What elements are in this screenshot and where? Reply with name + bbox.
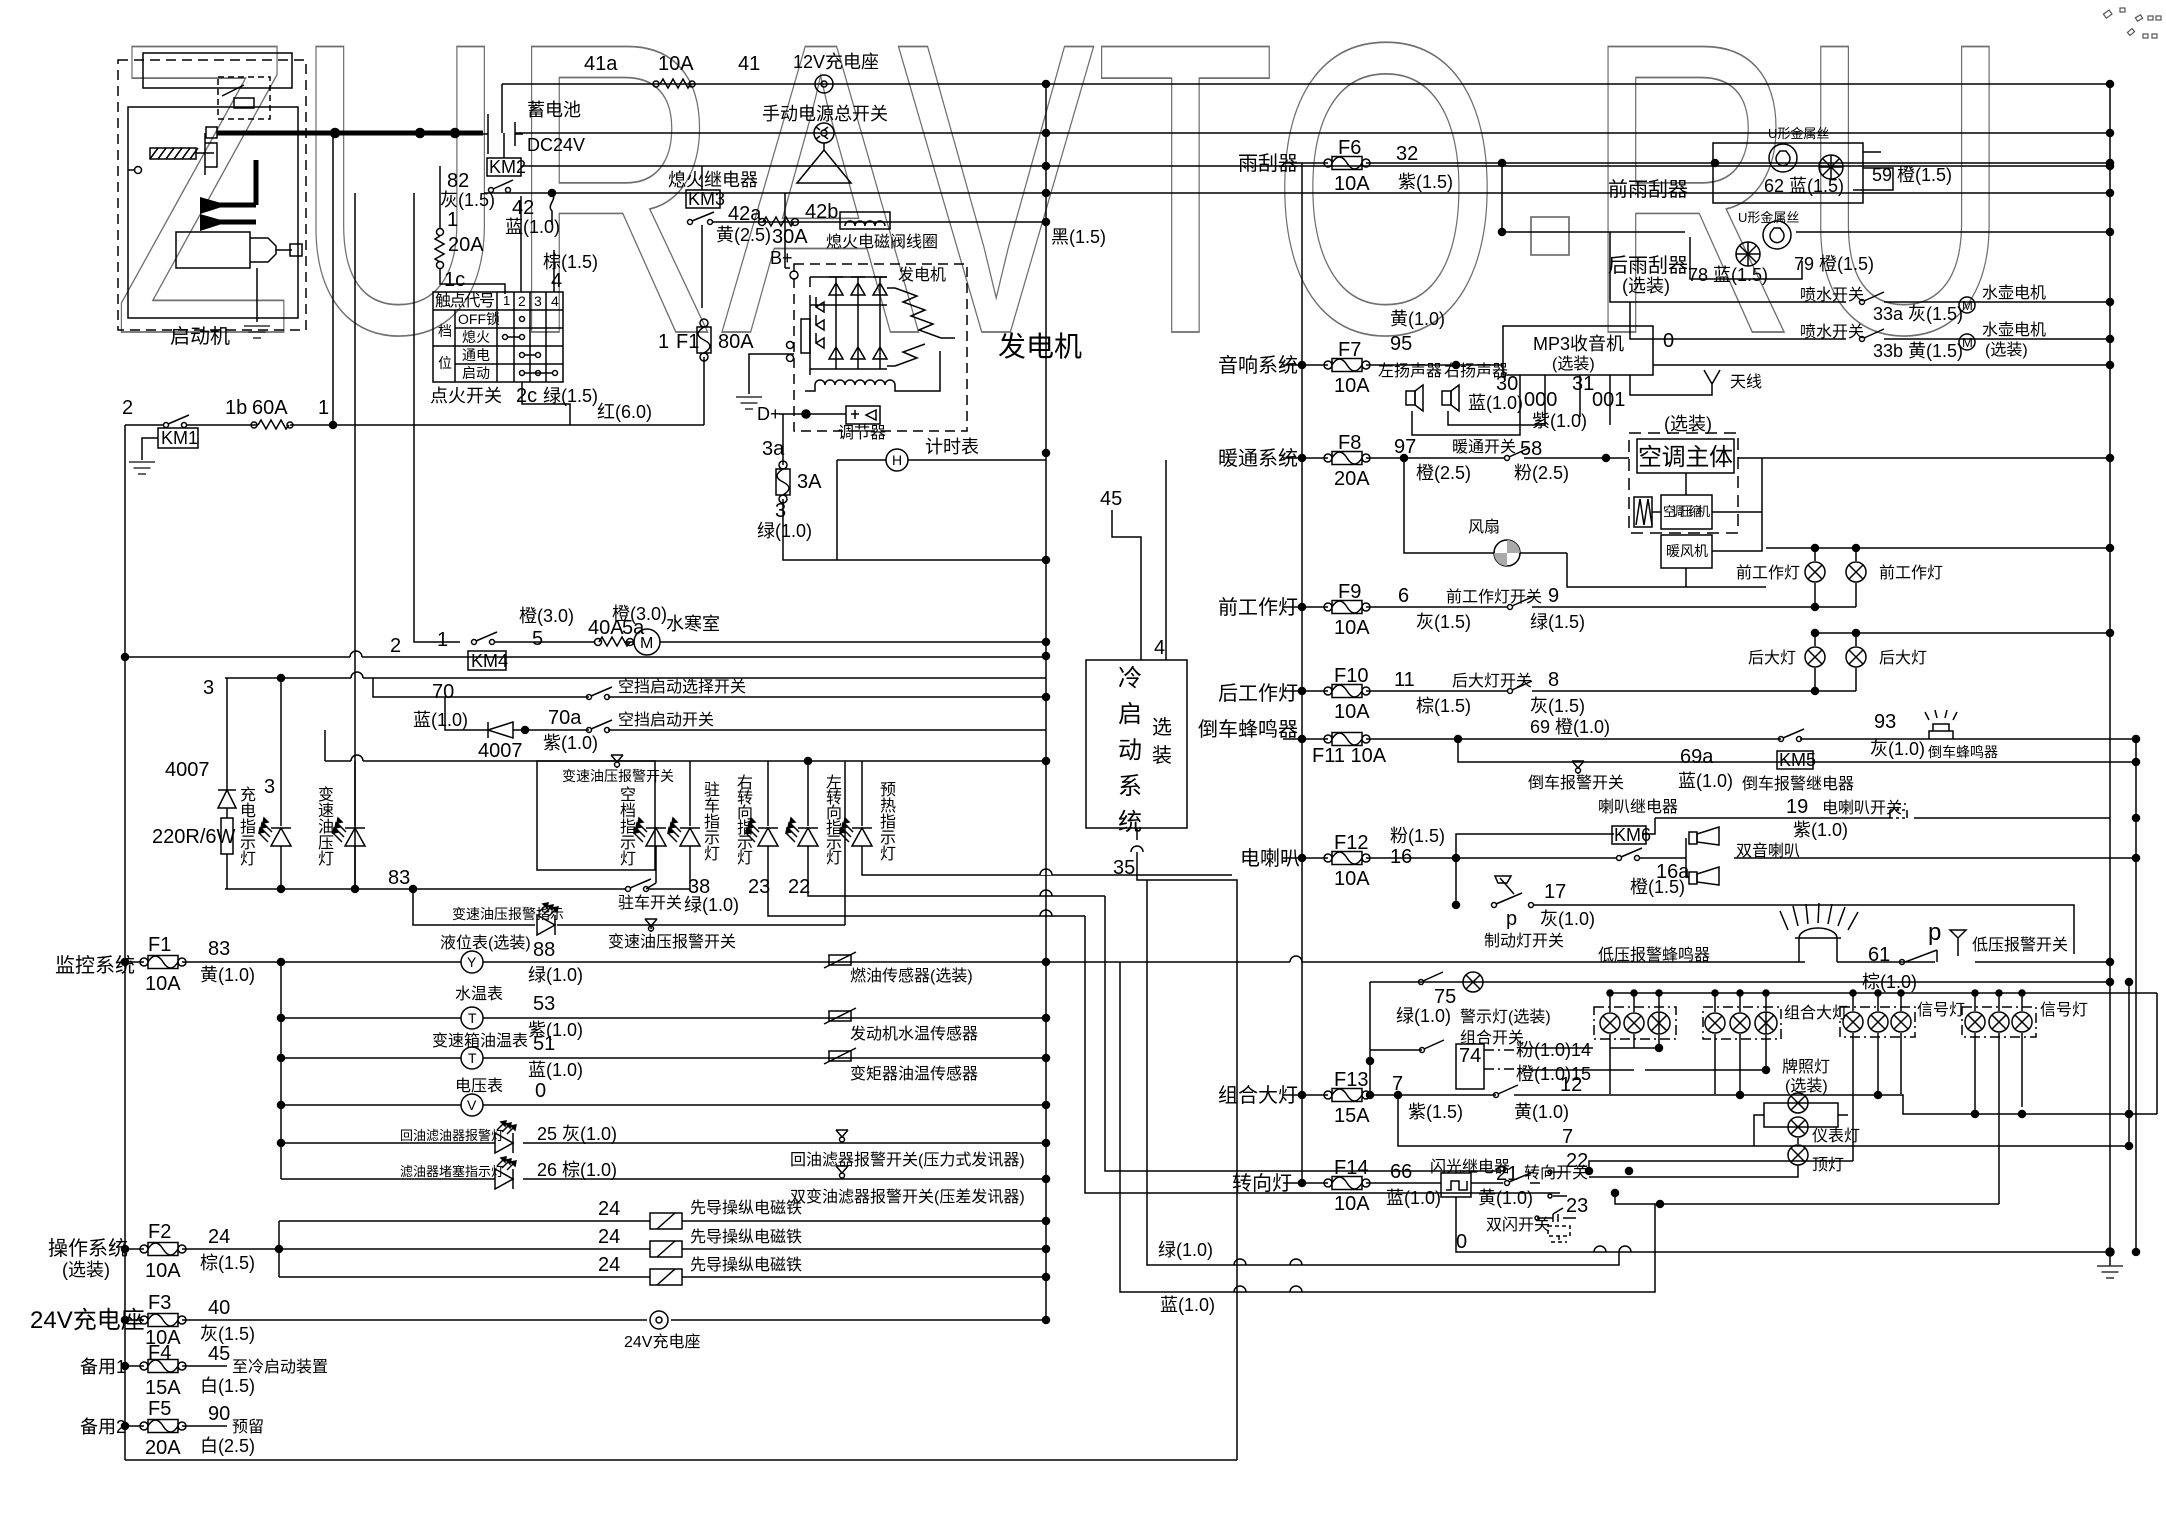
svg-text:紫(1.5): 紫(1.5) — [1408, 1102, 1463, 1122]
svg-text:绿(1.5): 绿(1.5) — [543, 386, 598, 406]
fuse F11 — [1324, 733, 1370, 746]
LED 驻车 — [689, 761, 691, 826]
node — [1299, 455, 1306, 462]
svg-text:变速油压报警开关: 变速油压报警开关 — [562, 768, 674, 784]
svg-text:24V充电座: 24V充电座 — [624, 1333, 700, 1351]
KM1 coil wire + ground — [142, 438, 158, 460]
svg-text:6: 6 — [1398, 585, 1409, 607]
starter motor thick fork — [200, 160, 256, 222]
fuse F13 — [1324, 1089, 1370, 1102]
front wiper motor — [1769, 144, 1797, 172]
svg-text:操作系统: 操作系统 — [48, 1237, 128, 1260]
switch — [1508, 605, 1513, 610]
torque conv sensor — [824, 1048, 856, 1064]
svg-text:熄火继电器: 熄火继电器 — [668, 170, 758, 190]
svg-text:备用2: 备用2 — [80, 1417, 126, 1437]
svg-text:绿(1.0): 绿(1.0) — [1158, 1240, 1213, 1260]
node — [122, 1246, 129, 1253]
svg-text:20A: 20A — [448, 234, 484, 256]
water heater motor M — [634, 629, 660, 655]
svg-text:预热指示灯: 预热指示灯 — [880, 781, 896, 863]
right bus B — [2135, 739, 2137, 1252]
right short bus — [2128, 982, 2130, 1146]
svg-text:4: 4 — [551, 293, 559, 309]
svg-text:F3: F3 — [148, 1292, 171, 1314]
svg-text:30A: 30A — [772, 226, 808, 248]
svg-text:MP3收音机: MP3收音机 — [1533, 334, 1624, 354]
lamp stems — [1589, 1115, 1848, 1177]
big buzzer rays — [1780, 903, 1858, 930]
node — [1603, 455, 1610, 462]
starter motor body — [176, 232, 292, 268]
node y678 — [278, 675, 285, 682]
rotor coil — [805, 351, 940, 391]
wire row y193 — [484, 192, 2110, 194]
svg-text:启动机: 启动机 — [170, 325, 230, 348]
fan circuit — [1404, 458, 1766, 587]
flasher relay box — [1441, 1173, 1471, 1197]
trans temp gauge T — [461, 1047, 483, 1069]
svg-text:93: 93 — [1874, 711, 1896, 733]
fuse F6 — [1324, 157, 1370, 170]
svg-text:回油滤器报警开关(压力式发讯器): 回油滤器报警开关(压力式发讯器) — [790, 1151, 1025, 1169]
svg-text:绿(1.5): 绿(1.5) — [1530, 612, 1585, 632]
svg-text:棕(1.5): 棕(1.5) — [543, 252, 598, 272]
wire hvac row — [1283, 457, 2110, 459]
svg-text:61: 61 — [1868, 944, 1890, 966]
node — [1299, 688, 1306, 695]
wire KM3 row — [713, 221, 1046, 223]
svg-text:Y: Y — [467, 954, 477, 970]
bus B joins ground bus — [2135, 1251, 2137, 1253]
svg-text:前工作灯: 前工作灯 — [1736, 564, 1800, 582]
svg-text:88: 88 — [533, 939, 555, 961]
svg-text:手动电源总开关: 手动电源总开关 — [762, 104, 888, 124]
svg-text:信号灯: 信号灯 — [1917, 1001, 1965, 1019]
svg-text:紫(1.0): 紫(1.0) — [1532, 411, 1587, 431]
vertical x281 gauge bus — [280, 962, 282, 1179]
svg-text:19: 19 — [1786, 796, 1808, 818]
fuse 3A vertical — [776, 461, 790, 503]
svg-text:变速油压灯: 变速油压灯 — [318, 786, 334, 868]
fuse F2 — [140, 1243, 186, 1256]
pressure sw — [836, 1166, 848, 1179]
svg-text:档: 档 — [438, 323, 452, 339]
black bus x1046 — [1045, 84, 1047, 1320]
generator dashed box — [794, 264, 967, 431]
svg-text:7: 7 — [1562, 1126, 1573, 1148]
svg-text:23: 23 — [1566, 1195, 1588, 1217]
svg-text:30: 30 — [1496, 373, 1518, 395]
hazard switch body — [1548, 1226, 1570, 1242]
fan — [1494, 540, 1520, 566]
svg-text:20A: 20A — [145, 1437, 181, 1459]
svg-text:69 橙(1.0): 69 橙(1.0) — [1530, 717, 1610, 737]
svg-text:回油滤油器报警灯: 回油滤油器报警灯 — [400, 1128, 504, 1143]
svg-text:先导操纵电磁铁: 先导操纵电磁铁 — [690, 1199, 802, 1217]
svg-text:后大灯: 后大灯 — [1879, 649, 1927, 667]
KM6 relay — [1612, 826, 1646, 844]
svg-text:0: 0 — [1663, 330, 1674, 352]
svg-text:双变油滤器报警开关(压差发讯器): 双变油滤器报警开关(压差发讯器) — [790, 1188, 1025, 1206]
front wiper fan — [1819, 155, 1843, 179]
svg-text:(选装): (选装) — [1664, 414, 1712, 434]
nodes — [278, 1015, 285, 1022]
AC dashed box — [1629, 433, 1738, 533]
starter top bar — [143, 53, 292, 88]
svg-text:24: 24 — [598, 1254, 620, 1276]
left bus down from KM1 row — [124, 425, 126, 1460]
wire col4 stub — [553, 250, 555, 292]
small diodes left — [816, 297, 824, 348]
svg-text:10A: 10A — [1334, 173, 1370, 195]
svg-text:24: 24 — [598, 1226, 620, 1248]
svg-text:前工作灯: 前工作灯 — [1879, 564, 1943, 582]
nodes — [278, 1055, 285, 1062]
wire water temp row — [281, 1017, 1047, 1019]
cluster1 stems — [1610, 993, 1659, 1094]
wire 4 — [1165, 460, 1167, 660]
svg-text:78 蓝(1.5): 78 蓝(1.5) — [1688, 265, 1768, 285]
wire F9 row — [1283, 606, 1856, 608]
pressure sw — [645, 919, 657, 932]
svg-text:T: T — [468, 1050, 477, 1066]
wire 2c from table down to red wire — [522, 382, 570, 425]
cluster3 stems — [1853, 993, 1901, 1161]
wire 3 down then right — [783, 499, 1046, 560]
svg-text:F11 10A: F11 10A — [1312, 745, 1387, 767]
svg-text:水壶电机: 水壶电机 — [1982, 321, 2046, 339]
svg-text:灰(1.0): 灰(1.0) — [1870, 739, 1925, 759]
svg-text:暖风机: 暖风机 — [1666, 543, 1708, 559]
svg-text:暖通开关: 暖通开关 — [1452, 438, 1516, 456]
svg-text:1: 1 — [437, 629, 448, 651]
dash-dot links — [1484, 1050, 1522, 1069]
svg-text:3a: 3a — [762, 438, 785, 460]
cluster2 stems — [1715, 993, 1766, 1094]
svg-text:驻车开关: 驻车开关 — [618, 894, 682, 912]
fuse F1 — [140, 956, 186, 969]
hops on 22/23 wires near x1046 — [1040, 890, 1052, 916]
switch 空挡启动开关 — [587, 728, 592, 733]
brake switch — [1492, 903, 1497, 908]
svg-text:26 棕(1.0): 26 棕(1.0) — [537, 1160, 617, 1180]
svg-text:p: p — [1506, 908, 1517, 930]
svg-text:F8: F8 — [1338, 432, 1361, 454]
svg-text:9: 9 — [1548, 585, 1559, 607]
svg-text:紫(1.0): 紫(1.0) — [543, 733, 598, 753]
nodes — [278, 959, 285, 966]
svg-text:OFF锁: OFF锁 — [458, 311, 500, 327]
svg-text:20A: 20A — [1334, 468, 1370, 490]
watermark dot square — [1531, 217, 1569, 255]
node — [1299, 855, 1306, 862]
svg-text:黄(1.0): 黄(1.0) — [1478, 1188, 1533, 1208]
svg-text:p: p — [1928, 919, 1941, 946]
svg-text:M: M — [1962, 298, 1973, 313]
svg-text:后大灯: 后大灯 — [1748, 649, 1796, 667]
svg-text:F13: F13 — [1334, 1069, 1368, 1091]
wire y982 — [1370, 981, 2110, 983]
svg-text:备用1: 备用1 — [80, 1357, 126, 1377]
red wire y425 — [290, 424, 704, 426]
svg-text:灰(1.5): 灰(1.5) — [1530, 696, 1585, 716]
wire lamp top — [1766, 547, 2110, 549]
svg-text:牌照灯: 牌照灯 — [1782, 1058, 1830, 1076]
svg-text:粉(1.5): 粉(1.5) — [1390, 826, 1445, 846]
svg-text:3: 3 — [203, 677, 214, 699]
svg-text:12V充电座: 12V充电座 — [793, 52, 879, 72]
stop solenoid coil box — [840, 212, 890, 229]
KM3 coil stub — [701, 166, 703, 190]
lamp cluster 3 box — [1840, 1007, 1915, 1037]
diodes top row — [829, 277, 887, 305]
svg-text:74: 74 — [1459, 1045, 1481, 1067]
diode 4007 vertical — [218, 790, 236, 808]
22 wire from leds — [1105, 896, 1505, 1171]
wire y642 — [494, 641, 1046, 643]
svg-text:KM2: KM2 — [489, 157, 526, 177]
svg-text:倒车报警开关: 倒车报警开关 — [1528, 774, 1624, 792]
hop on 35 wire — [1131, 846, 1143, 852]
corner marks top right — [2103, 8, 2161, 38]
combo switch contacts — [1420, 1048, 1425, 1053]
svg-text:10A: 10A — [658, 53, 694, 75]
svg-text:12: 12 — [1560, 1074, 1582, 1096]
svg-text:45: 45 — [1100, 488, 1122, 510]
cold start box — [1086, 660, 1187, 828]
wire diode chain — [225, 678, 227, 818]
svg-text:2: 2 — [390, 635, 401, 657]
svg-text:后工作灯: 后工作灯 — [1218, 682, 1298, 705]
heater box — [1661, 535, 1712, 568]
svg-text:T: T — [468, 1010, 477, 1026]
node 70a — [522, 727, 529, 734]
starter ground wire — [256, 268, 258, 322]
svg-text:顶灯: 顶灯 — [1812, 1156, 1844, 1174]
svg-text:F6: F6 — [1338, 137, 1361, 159]
svg-text:000: 000 — [1524, 389, 1557, 411]
svg-text:先导操纵电磁铁: 先导操纵电磁铁 — [690, 1228, 802, 1246]
svg-text:电压表: 电压表 — [455, 1077, 503, 1095]
svg-text:发电机: 发电机 — [998, 331, 1082, 362]
manual master switch — [814, 123, 834, 143]
svg-text:双音喇叭: 双音喇叭 — [1736, 842, 1800, 860]
fuse F9 — [1324, 601, 1370, 614]
lamp cluster 2 box — [1703, 1007, 1781, 1039]
svg-text:F7: F7 — [1338, 339, 1361, 361]
svg-text:蓝(1.0): 蓝(1.0) — [1160, 1295, 1215, 1315]
wire y761 — [325, 760, 1046, 762]
wire 35 from box bottom — [1137, 828, 1237, 1460]
svg-text:2: 2 — [518, 293, 526, 309]
front work lamps — [1805, 562, 1825, 582]
washer wire 1 — [1884, 301, 2110, 303]
fuse F10 — [1324, 685, 1370, 698]
svg-text:天线: 天线 — [1730, 373, 1762, 391]
svg-text:75: 75 — [1434, 986, 1456, 1008]
svg-text:70a: 70a — [548, 707, 582, 729]
wire brake row — [1533, 905, 2074, 954]
svg-text:白(2.5): 白(2.5) — [200, 1436, 255, 1456]
svg-text:83: 83 — [388, 867, 410, 889]
svg-text:F2: F2 — [148, 1221, 171, 1243]
fuse 30A — [759, 219, 766, 226]
lamp cluster 4 box — [1962, 1007, 2036, 1037]
license lamp frame — [1764, 1103, 1838, 1127]
svg-text:KM6: KM6 — [1614, 825, 1651, 845]
fuse F1 80A vertical — [697, 319, 711, 361]
svg-text:3A: 3A — [797, 471, 822, 493]
node — [1453, 855, 1460, 862]
svg-text:蓝(1.0): 蓝(1.0) — [1678, 771, 1733, 791]
reverse buzzer symbol — [1925, 710, 1957, 739]
svg-text:10A: 10A — [1334, 617, 1370, 639]
pressure sw — [836, 1130, 848, 1143]
svg-text:F9: F9 — [1338, 581, 1361, 603]
svg-text:倒车蜂鸣器: 倒车蜂鸣器 — [1928, 744, 1998, 760]
svg-text:点火开关: 点火开关 — [430, 386, 502, 406]
hazard switch — [1537, 1208, 1576, 1222]
cluster4 stems — [1975, 993, 2022, 1204]
svg-text:预留: 预留 — [232, 1418, 264, 1436]
regulator box — [846, 406, 880, 424]
svg-text:水壶电机: 水壶电机 — [1982, 284, 2046, 302]
washer switch 1 — [1610, 232, 1846, 302]
AC wiring right — [1686, 458, 1762, 551]
svg-text:组合大灯: 组合大灯 — [1784, 1004, 1848, 1022]
svg-text:V: V — [467, 1097, 477, 1113]
field resistor — [801, 319, 810, 353]
diode 4007 — [488, 722, 513, 738]
svg-text:10A: 10A — [145, 1260, 181, 1282]
svg-text:U形金属丝: U形金属丝 — [1738, 210, 1799, 225]
svg-text:32: 32 — [1396, 143, 1418, 165]
svg-text:8: 8 — [1548, 669, 1559, 691]
hour meter H — [886, 449, 908, 471]
node y761 — [805, 758, 812, 765]
node — [278, 1140, 285, 1147]
rear wiper bracket — [1690, 237, 1802, 279]
svg-text:5: 5 — [532, 628, 543, 650]
wire 24V row — [125, 1319, 1046, 1321]
svg-text:棕(1.5): 棕(1.5) — [1416, 696, 1471, 716]
contacts OFF row — [520, 317, 525, 322]
svg-text:水温表: 水温表 — [455, 985, 503, 1003]
svg-text:倒车蜂鸣器: 倒车蜂鸣器 — [1198, 718, 1298, 741]
wire 23 — [1615, 1193, 1999, 1204]
vertical x414 from y193 — [414, 193, 460, 642]
green wire vertical — [1147, 880, 1619, 1265]
resistor 220R/6W — [221, 818, 233, 854]
AC compressor box — [1661, 495, 1712, 529]
svg-text:3: 3 — [264, 776, 275, 798]
svg-text:42a: 42a — [728, 203, 762, 225]
nodes — [1499, 160, 1506, 167]
wire y730 neutral start — [445, 697, 1046, 730]
fuse F3 — [140, 1314, 186, 1327]
svg-text:60A: 60A — [252, 397, 288, 419]
blue wire vertical — [1120, 962, 1655, 1292]
hops on 0 wire — [1594, 1246, 1631, 1252]
svg-text:79 橙(1.5): 79 橙(1.5) — [1794, 254, 1874, 274]
reverse switch — [1779, 737, 1784, 742]
KM6 contact — [1617, 856, 1622, 861]
svg-text:橙(2.5): 橙(2.5) — [1416, 463, 1471, 483]
74 box — [1456, 1044, 1484, 1089]
starter inner frame — [128, 107, 298, 318]
pressure sw 变速油压报警开关 — [611, 755, 623, 768]
generator bus lines — [810, 277, 887, 375]
svg-text:粉(2.5): 粉(2.5) — [1514, 463, 1569, 483]
svg-text:位: 位 — [438, 355, 452, 371]
node — [122, 1317, 129, 1324]
svg-text:KM3: KM3 — [688, 189, 725, 209]
svg-text:灰(1.5): 灰(1.5) — [1416, 612, 1471, 632]
contacts 通电 row — [520, 353, 525, 358]
LED 回油 — [495, 1121, 516, 1153]
svg-text:F12: F12 — [1334, 832, 1368, 854]
wire 22 — [1589, 1161, 1853, 1171]
wire KM1 row — [125, 424, 258, 426]
svg-text:冷启动系统: 冷启动系统 — [1118, 665, 1142, 836]
svg-text:紫(1.0): 紫(1.0) — [1793, 820, 1848, 840]
svg-text:15A: 15A — [1334, 1105, 1370, 1127]
wire 15 — [1522, 1069, 1766, 1071]
svg-text:蓄电池: 蓄电池 — [527, 100, 581, 120]
big buzzer body — [1795, 928, 1841, 962]
wire 12 — [1569, 1095, 2157, 1114]
node — [1043, 1176, 1050, 1183]
lamps cluster1 — [1600, 1013, 1620, 1033]
B+ wire — [785, 193, 790, 268]
fuse F4 — [140, 1360, 186, 1373]
twin horns — [1685, 838, 1687, 878]
svg-text:发电机: 发电机 — [898, 266, 946, 284]
svg-text:95: 95 — [1390, 333, 1412, 355]
hop blue — [1234, 1286, 1302, 1292]
generator ground — [749, 354, 794, 394]
node — [1499, 229, 1506, 236]
LED 堵塞 — [495, 1157, 516, 1189]
svg-text:蓝(1.0): 蓝(1.0) — [413, 710, 468, 730]
stator windings — [887, 288, 955, 366]
svg-text:4007: 4007 — [478, 740, 523, 762]
svg-text:31: 31 — [1572, 373, 1594, 395]
KM3 contact — [688, 220, 693, 225]
wire y889 — [225, 888, 625, 890]
svg-text:仪表灯: 仪表灯 — [1812, 1127, 1860, 1145]
starter terminal circle — [135, 167, 142, 174]
node — [1395, 1092, 1402, 1099]
water temp sensor — [824, 1008, 856, 1024]
LED 预热 — [861, 761, 863, 826]
headlight switch — [1494, 1093, 1499, 1098]
rear wiper wires row — [1502, 163, 1685, 232]
wire F10 row — [1283, 690, 1856, 692]
svg-text:1: 1 — [447, 209, 458, 231]
water temp gauge T — [461, 1007, 483, 1029]
wire flasher to switch — [1471, 1182, 1503, 1184]
svg-text:41: 41 — [738, 53, 760, 75]
node — [1299, 362, 1306, 369]
svg-text:23: 23 — [748, 876, 770, 898]
svg-text:69a: 69a — [1680, 746, 1714, 768]
12V socket — [815, 75, 833, 93]
compressor clutch coil — [1634, 497, 1652, 527]
solenoid plunger — [196, 133, 217, 175]
svg-text:M: M — [640, 635, 653, 652]
